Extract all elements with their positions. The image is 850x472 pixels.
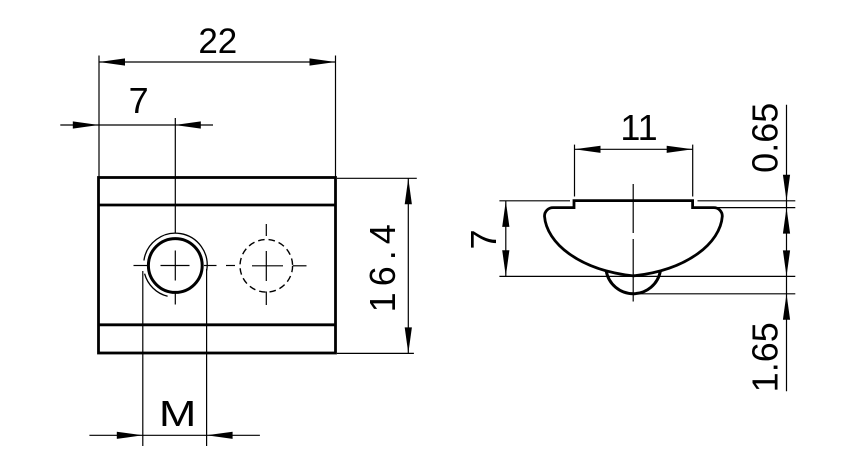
svg-text:7: 7 xyxy=(463,229,504,249)
svg-text:M: M xyxy=(159,393,197,434)
svg-text:0.65: 0.65 xyxy=(744,103,785,173)
svg-text:7: 7 xyxy=(129,80,149,121)
svg-text:1.65: 1.65 xyxy=(744,322,785,392)
svg-text:16.4: 16.4 xyxy=(362,218,403,312)
svg-text:11: 11 xyxy=(620,107,657,148)
svg-text:22: 22 xyxy=(198,22,237,61)
